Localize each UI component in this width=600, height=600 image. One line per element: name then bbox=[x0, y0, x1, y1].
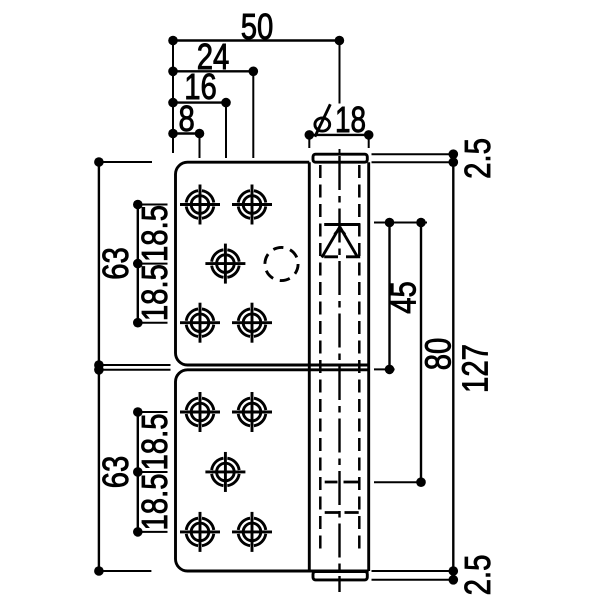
dim 24 right extension bbox=[252, 75, 254, 158]
phi18 extension lines bbox=[309, 140, 368, 149]
lower leaf outline bbox=[176, 370, 369, 571]
top dim stack left extension line bbox=[172, 41, 174, 154]
svg-text:18.5: 18.5 bbox=[134, 264, 175, 321]
svg-text:2.5: 2.5 bbox=[457, 555, 498, 596]
upper leaf outline bbox=[176, 162, 369, 365]
screw hole A2 bbox=[232, 185, 272, 225]
right top extension lines bbox=[372, 154, 454, 162]
svg-text:127: 127 bbox=[455, 344, 496, 393]
pin bottom feature line 1 bbox=[325, 481, 359, 484]
pin tip triangle left leg bbox=[322, 227, 340, 258]
pin tip triangle right leg bbox=[340, 227, 358, 258]
pin base line right bbox=[346, 255, 360, 258]
left bottom extension line bbox=[99, 570, 151, 572]
barrel right edge bbox=[367, 162, 370, 571]
svg-text:45: 45 bbox=[383, 281, 424, 314]
svg-text:63: 63 bbox=[95, 247, 136, 280]
dim 45 line bbox=[388, 223, 390, 370]
svg-text:18.5: 18.5 bbox=[134, 474, 175, 531]
screw hole B3 bbox=[205, 452, 245, 492]
phi symbol bbox=[315, 104, 330, 136]
lower 18.5 extension lines bbox=[138, 412, 168, 532]
upper 18.5 extension lines bbox=[138, 205, 168, 323]
dim 8 right extension bbox=[199, 137, 201, 158]
screw hole A5 bbox=[232, 303, 272, 343]
svg-text:18.5: 18.5 bbox=[134, 414, 175, 471]
pin tip apex arc bbox=[335, 231, 345, 235]
dim 16 line bbox=[173, 101, 226, 103]
screw hole B5 bbox=[232, 512, 272, 552]
dim 127 line bbox=[452, 154, 454, 580]
left junction extension lines bbox=[99, 365, 171, 370]
barrel left edge bbox=[308, 162, 311, 571]
dim 8 line bbox=[173, 132, 200, 134]
lower 18.5 dimension line bbox=[137, 412, 139, 532]
dim 80 bottom extension bbox=[374, 481, 421, 483]
screw hole B4 bbox=[180, 512, 220, 552]
dim 50 line bbox=[173, 39, 339, 41]
dim 16 right extension bbox=[225, 106, 227, 158]
screw hole A1 bbox=[180, 185, 220, 225]
barrel bore hidden line left bbox=[319, 165, 322, 555]
barrel center line bbox=[338, 156, 340, 592]
pin bottom feature line 2 bbox=[325, 511, 359, 514]
screw hole A4 bbox=[180, 303, 220, 343]
screw hole B1 bbox=[180, 392, 220, 432]
dim 45 bottom extension bbox=[374, 368, 395, 370]
pin top bar bbox=[324, 223, 360, 226]
left 63/63 dimension line bbox=[98, 162, 100, 571]
svg-text:63: 63 bbox=[95, 456, 136, 489]
barrel bottom cap bbox=[313, 572, 367, 580]
svg-text:80: 80 bbox=[418, 338, 459, 371]
screw hole A3 bbox=[205, 244, 245, 284]
dim 24 line bbox=[173, 70, 253, 72]
screw hole B2 bbox=[232, 392, 272, 432]
svg-text:8: 8 bbox=[179, 98, 195, 139]
svg-text:50: 50 bbox=[241, 6, 274, 47]
svg-text:18.5: 18.5 bbox=[134, 205, 175, 262]
barrel bore hidden line right bbox=[358, 165, 361, 555]
barrel top cap bbox=[313, 154, 367, 162]
left top extension line bbox=[99, 161, 152, 163]
svg-text:18: 18 bbox=[335, 99, 366, 140]
dim 50 right extension bbox=[339, 45, 341, 154]
upper knuckle joint line bbox=[309, 363, 368, 366]
right bottom extension lines bbox=[372, 571, 454, 580]
dim phi18 line bbox=[309, 134, 368, 136]
dim 80 line bbox=[420, 223, 422, 483]
pin base line left bbox=[324, 255, 338, 258]
dashed circle bbox=[265, 247, 298, 280]
pin top extension line bbox=[374, 222, 427, 224]
svg-text:2.5: 2.5 bbox=[457, 138, 498, 179]
upper 18.5 dimension line bbox=[137, 205, 139, 323]
